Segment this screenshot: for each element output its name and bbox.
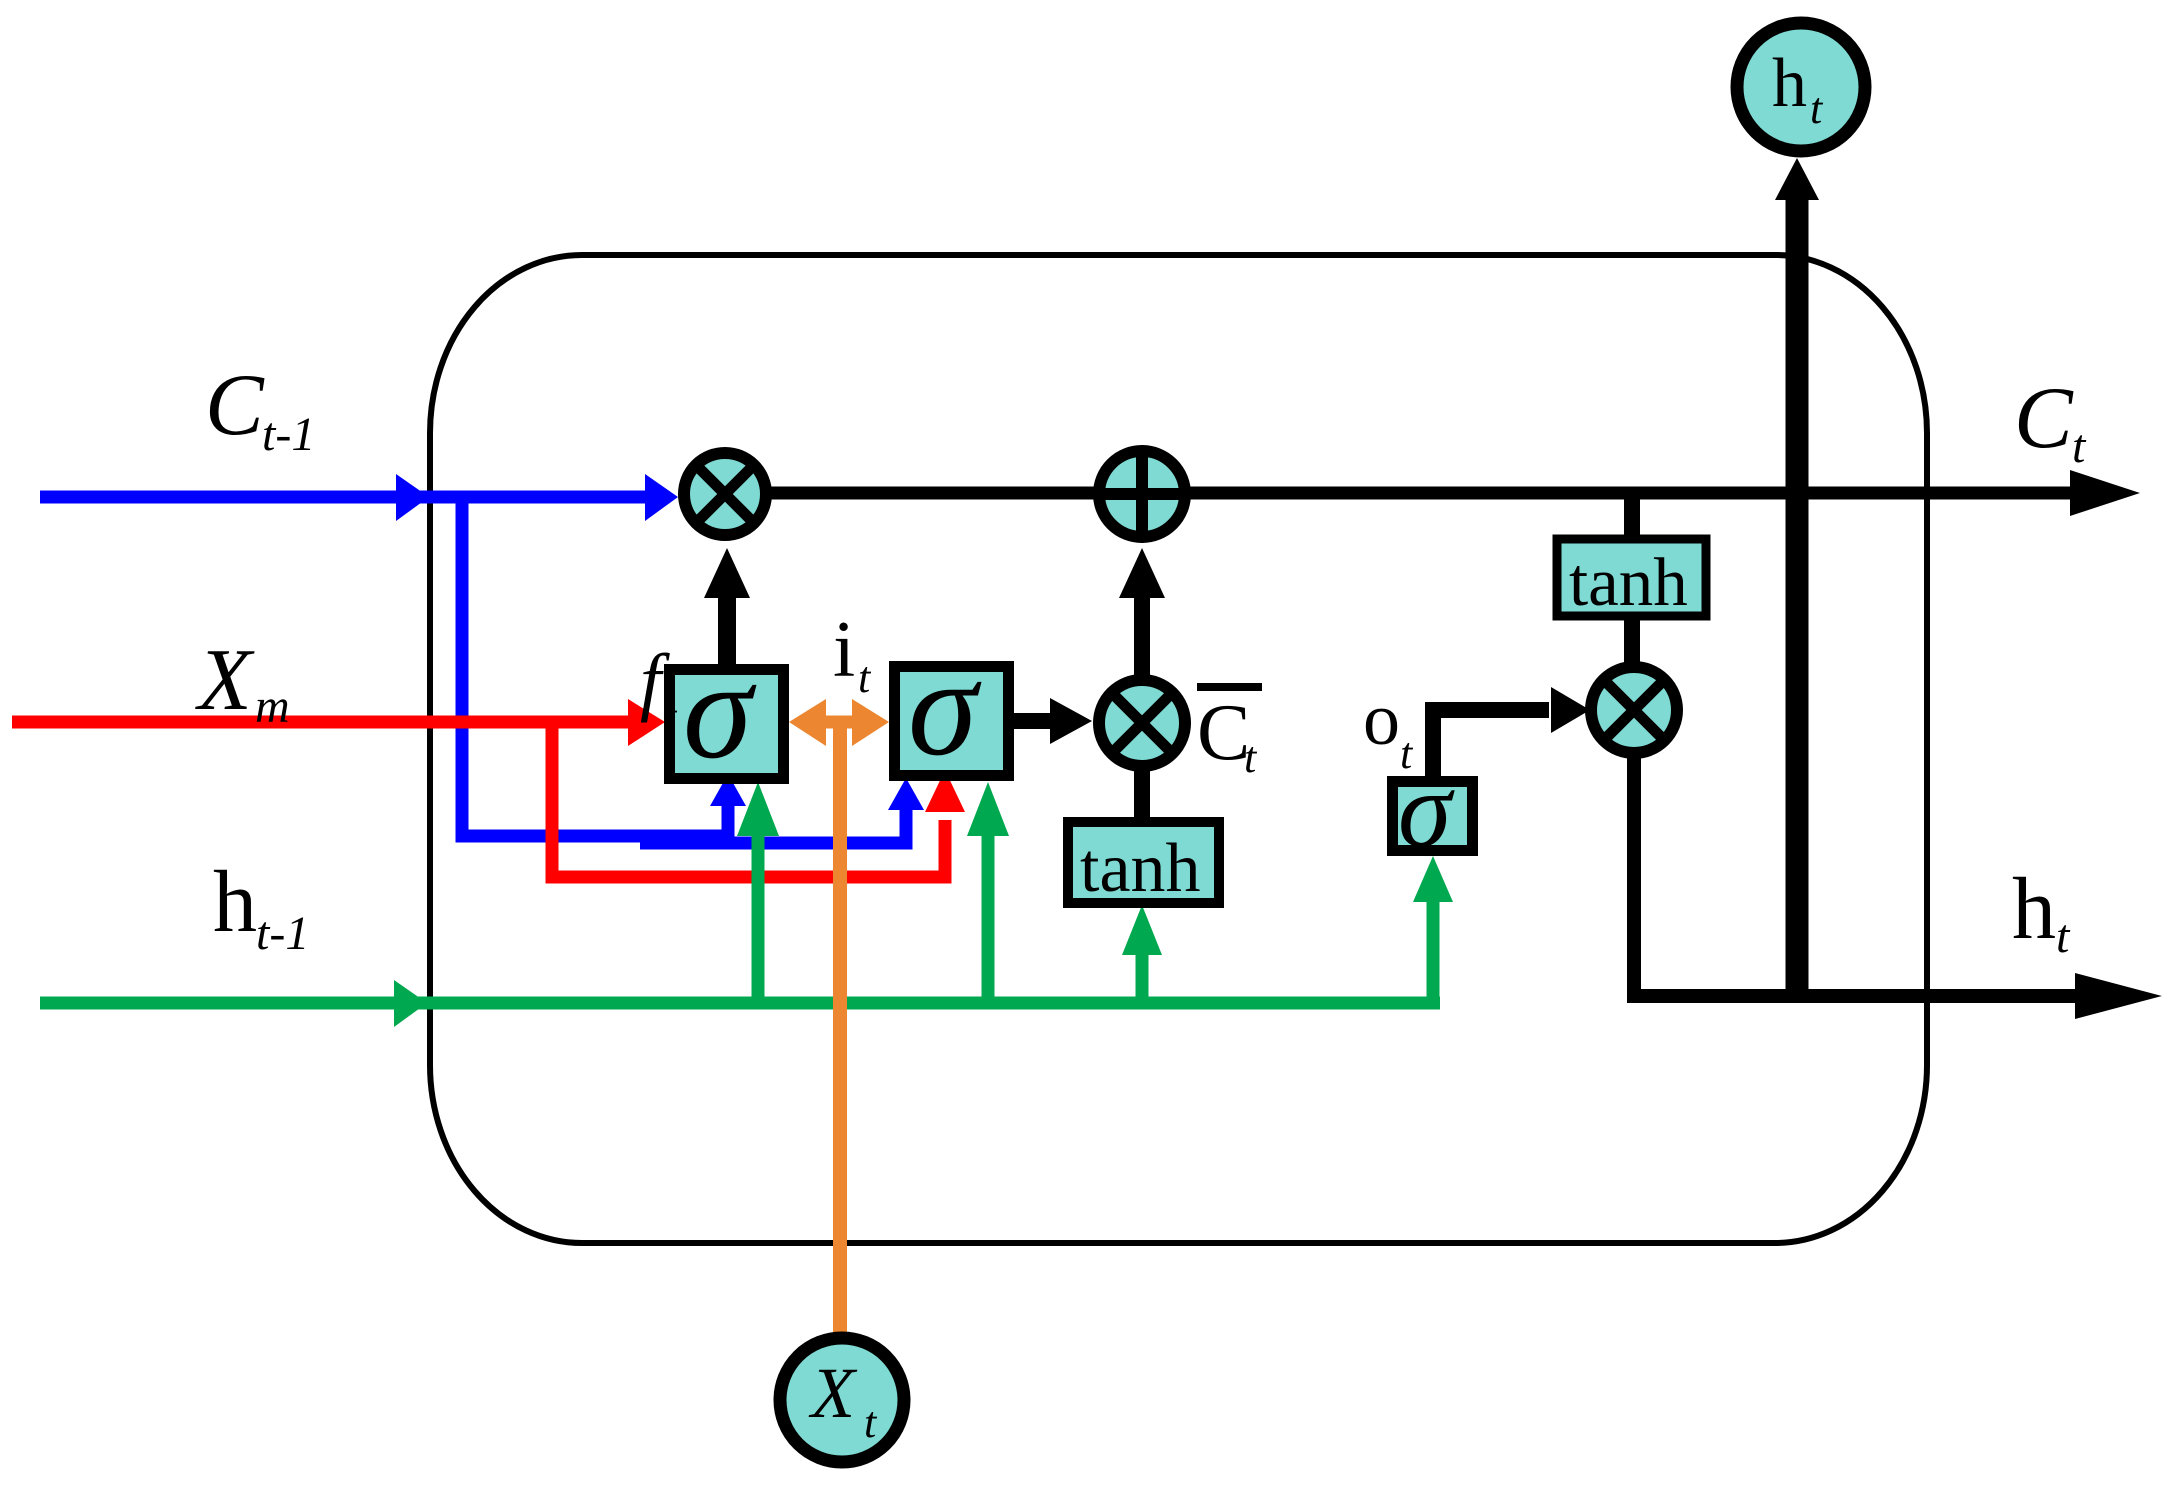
- wire cell-state C line (black, left multiply to Ct output): [725, 487, 2078, 500]
- wire Xm branch (red) down and to i gate: [552, 722, 945, 877]
- svg-text:o: o: [1363, 679, 1400, 761]
- node add (cell state update): [1099, 451, 1185, 537]
- node Xt (bottom input circle): [780, 1338, 904, 1462]
- wire blue lower branch to i gate: [640, 796, 906, 843]
- wire Xm input (red): [12, 716, 630, 729]
- wire output tanh box to output multiply: [1624, 616, 1640, 668]
- arrowhead blue into i gate: [888, 778, 924, 810]
- svg-text:t: t: [2056, 910, 2071, 963]
- wire green branch up into f gate: [752, 832, 765, 1003]
- svg-text:h: h: [1772, 45, 1807, 122]
- svg-text:X: X: [808, 1353, 858, 1433]
- box candidate tanh: [1068, 822, 1219, 903]
- wire green branch up into candidate tanh: [1136, 952, 1149, 1003]
- LSTM cell body (rounded rectangle): [430, 255, 1927, 1243]
- wire ht-1 input (green): [40, 997, 1440, 1010]
- svg-text:σ: σ: [1398, 751, 1455, 870]
- svg-text:t: t: [858, 653, 872, 702]
- svg-text:C: C: [1197, 689, 1250, 777]
- node multiply (candidate): [1099, 680, 1185, 766]
- svg-text:t: t: [1810, 84, 1824, 133]
- wire green branch up into i gate: [982, 832, 995, 1003]
- arrowhead Ct output: [2070, 470, 2140, 516]
- svg-text:σ: σ: [683, 633, 757, 788]
- wire C line branch down to output tanh box: [1624, 493, 1640, 541]
- svg-text:t: t: [1244, 733, 1258, 782]
- svg-text:i: i: [833, 606, 855, 694]
- wire candidate multiply up to add junction: [1134, 592, 1150, 678]
- wire Ct-1 input (blue): [40, 491, 650, 504]
- arrowhead ht output: [2075, 973, 2162, 1019]
- svg-text:σ: σ: [908, 630, 982, 785]
- svg-text:tanh: tanh: [1080, 830, 1201, 907]
- gate box f (sigma): [670, 670, 784, 779]
- svg-text:t-1: t-1: [256, 907, 309, 960]
- wire Xt input (orange vertical): [833, 722, 847, 1336]
- svg-text:t: t: [2072, 420, 2087, 473]
- svg-text:C: C: [205, 357, 265, 454]
- svg-text:t: t: [664, 692, 678, 741]
- wire output multiply down and right to ht output: [1634, 750, 2078, 996]
- node multiply (forget): [684, 453, 766, 535]
- svg-text:h: h: [213, 854, 257, 951]
- svg-text:m: m: [255, 680, 290, 733]
- svg-text:t: t: [864, 1398, 878, 1447]
- label Ct-bar (candidate): [1197, 683, 1262, 691]
- gate box i (sigma): [895, 667, 1009, 776]
- wire green branch up into o gate: [1427, 900, 1440, 1003]
- wire orange double-headed arrow between f and i gates: [812, 716, 866, 729]
- wire f-gate to multiply (vertical arrow up): [718, 592, 736, 672]
- wire i-gate to candidate multiply (horizontal arrow): [1014, 713, 1054, 729]
- box output tanh: [1557, 539, 1706, 616]
- wire candidate multiply down to tanh box: [1134, 764, 1150, 824]
- svg-text:C: C: [2014, 370, 2074, 467]
- node multiply (output): [1591, 667, 1677, 753]
- node ht (top output circle): [1737, 23, 1865, 151]
- wire ht vertical arrow up to ht node: [1786, 198, 1809, 996]
- svg-text:X: X: [195, 632, 255, 729]
- svg-text:tanh: tanh: [1569, 544, 1688, 620]
- gate box o (sigma): [1393, 782, 1473, 851]
- svg-text:h: h: [2012, 861, 2056, 958]
- wire o-gate elbow to output multiply: [1433, 710, 1549, 782]
- wire Ct-1 recurrent branch (blue) down and to gates: [462, 497, 728, 836]
- svg-text:t-1: t-1: [262, 408, 315, 461]
